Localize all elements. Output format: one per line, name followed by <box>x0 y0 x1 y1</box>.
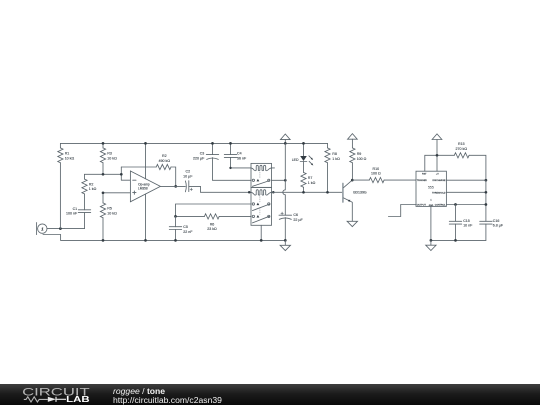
node LED rail junction <box>302 142 305 145</box>
wire K1 switch right to VCC column <box>272 179 286 181</box>
IC U2 555 timer <box>416 171 446 207</box>
svg-text:10 kΩ: 10 kΩ <box>107 211 117 215</box>
svg-text:C6: C6 <box>293 213 298 217</box>
svg-text:6.8 µF: 6.8 µF <box>493 224 504 228</box>
node RST VCC junction <box>436 154 439 157</box>
wire discharge <box>446 179 486 181</box>
ground GND1 <box>280 240 290 250</box>
resistor R8 <box>325 143 340 192</box>
node R5 bottom rail junction <box>102 239 105 242</box>
svg-text:DISCHARGE: DISCHARGE <box>432 179 446 182</box>
svg-text:R2: R2 <box>89 183 94 187</box>
svg-text:LED: LED <box>292 158 299 162</box>
node discharge junction <box>485 179 488 182</box>
svg-text:R6: R6 <box>210 222 215 226</box>
resistor R5 <box>100 193 117 241</box>
node R8 bottom junction <box>326 191 329 194</box>
footer title text <box>113 387 165 396</box>
svg-text:CONTROL: CONTROL <box>435 205 446 207</box>
capacitor C3 <box>193 143 251 180</box>
node R7 bottom junction <box>302 191 305 194</box>
relay K2 <box>251 187 272 240</box>
terminal T1 input 1 <box>37 223 47 235</box>
node inverting junction <box>120 173 123 176</box>
wire divider node to op-amp <box>85 173 122 175</box>
svg-text:22 nF: 22 nF <box>183 230 193 234</box>
node feedback output junction <box>174 185 177 188</box>
svg-text:R3: R3 <box>107 152 112 156</box>
wire 555 gnd pin <box>430 206 432 240</box>
node op-amp V- rail junction <box>144 239 147 242</box>
svg-text:10 nF: 10 nF <box>463 224 473 228</box>
svg-text:1: 1 <box>41 226 44 232</box>
svg-text:R2: R2 <box>162 154 167 158</box>
wire input node <box>47 228 85 230</box>
svg-text:OUTPUT: OUTPUT <box>417 205 427 207</box>
node collector junction <box>351 179 354 182</box>
svg-text:C2: C2 <box>185 169 190 173</box>
svg-text:10 kΩ: 10 kΩ <box>107 156 117 160</box>
node C6 rail junction <box>284 239 287 242</box>
svg-text:10 kΩ: 10 kΩ <box>65 156 75 160</box>
wire base net <box>272 191 343 193</box>
relay K1 <box>251 163 275 187</box>
svg-text:C5: C5 <box>183 225 188 229</box>
svg-text:R1: R1 <box>65 152 70 156</box>
svg-text:22 µF: 22 µF <box>293 218 303 222</box>
node K1 right junction <box>284 179 287 182</box>
svg-text:LM358: LM358 <box>138 187 148 191</box>
svg-text:100 Ω: 100 Ω <box>371 171 381 175</box>
svg-text:C1: C1 <box>73 207 78 211</box>
node C15 gnd junction <box>454 239 457 242</box>
svg-text:1 kΩ: 1 kΩ <box>89 187 97 191</box>
svg-text:1 kΩ: 1 kΩ <box>308 181 316 185</box>
wire output stub <box>388 205 416 217</box>
resistor R9 <box>350 148 367 180</box>
resistor R6 <box>176 214 252 231</box>
node C4 wire corner <box>229 167 231 169</box>
svg-text:TRIGGER: TRIGGER <box>417 180 427 182</box>
wire bottom ground rail <box>43 235 285 241</box>
wire C2 to relay K2 coil <box>189 186 251 192</box>
resistor R3 <box>100 143 117 174</box>
resistor R10 <box>352 167 416 183</box>
capacitor C16 <box>480 219 504 240</box>
resistor R15 <box>454 142 486 180</box>
LED D1 <box>292 143 314 172</box>
node divider junction <box>102 173 105 176</box>
svg-text:23 kΩ: 23 kΩ <box>207 227 217 231</box>
capacitor C4 <box>224 143 251 168</box>
wire control <box>446 204 486 206</box>
resistor R2 <box>82 174 97 210</box>
svg-text:56 nF: 56 nF <box>237 157 247 161</box>
wire non-inverting input <box>103 192 130 194</box>
wire top VCC rail <box>60 142 327 144</box>
footer url text <box>113 396 222 405</box>
wire VCC column with hop <box>283 143 286 215</box>
power VCC V1 <box>280 134 290 143</box>
node K2 coil right pin <box>272 191 275 194</box>
footer bar <box>0 384 540 405</box>
svg-text:R7: R7 <box>308 176 313 180</box>
power VCC V3 <box>432 134 442 171</box>
svg-text:220 µF: 220 µF <box>193 157 205 161</box>
svg-text:100 nF: 100 nF <box>66 212 78 216</box>
svg-text:270 kΩ: 270 kΩ <box>456 147 468 151</box>
node VCC rail junction <box>284 142 287 145</box>
svg-text:BD139G: BD139G <box>353 191 367 195</box>
svg-text:THRESHOLD: THRESHOLD <box>432 192 446 194</box>
svg-text:R9: R9 <box>357 152 362 156</box>
capacitor C1 <box>66 207 91 229</box>
svg-text:1 kΩ: 1 kΩ <box>332 157 340 161</box>
resistor R7 <box>301 172 316 192</box>
node op-amp V+ rail junction <box>144 142 147 145</box>
node control C16 junction <box>485 203 488 206</box>
svg-text:C16: C16 <box>493 219 500 223</box>
wire 555 ground rail <box>431 239 486 241</box>
svg-text:555: 555 <box>428 185 434 189</box>
node K2 coil left pin <box>248 191 251 194</box>
svg-text:R15: R15 <box>458 142 465 146</box>
svg-text:R8: R8 <box>332 152 337 156</box>
svg-text:C3: C3 <box>200 152 205 156</box>
resistor R2 feedback 490k <box>121 154 175 186</box>
wire RST to rail <box>425 155 455 171</box>
node plus input junction <box>102 191 105 194</box>
node C4 rail junction <box>229 142 232 145</box>
capacitor C6 <box>279 212 303 240</box>
transistor Q1 BD139G <box>343 180 367 221</box>
node 555 gnd junction <box>430 239 433 242</box>
capacitor C5 <box>169 216 193 240</box>
svg-text:RST: RST <box>422 173 427 175</box>
node threshold junction <box>485 191 488 194</box>
power VCC V2 <box>348 134 358 148</box>
wire B1 to C5 node <box>176 204 252 216</box>
node relay ground rail junction <box>260 239 263 242</box>
ground GND3 <box>426 240 436 250</box>
svg-text:R10: R10 <box>373 167 380 171</box>
svg-text:C15: C15 <box>463 219 470 223</box>
node input junction <box>59 227 62 230</box>
wire op-amp output <box>160 185 185 187</box>
ground GND2 <box>347 221 357 226</box>
node C3 rail junction <box>211 142 214 145</box>
svg-text:LAB: LAB <box>66 394 90 404</box>
wire inverting input jog <box>121 167 130 180</box>
node control C15 junction <box>454 203 457 206</box>
capacitor C15 <box>449 205 473 241</box>
resistor R1 <box>58 143 75 228</box>
svg-text:490 kΩ: 490 kΩ <box>159 159 171 163</box>
CircuitLab logo <box>0 384 110 405</box>
svg-text:C4: C4 <box>237 152 242 156</box>
svg-text:100 Ω: 100 Ω <box>357 157 367 161</box>
wire threshold <box>446 180 486 221</box>
capacitor C2 <box>183 169 193 191</box>
node R3 top rail junction <box>102 142 105 145</box>
svg-text:10 µF: 10 µF <box>183 175 193 179</box>
node R6 C5 junction <box>174 215 177 218</box>
op-amp U1 LM358 <box>130 143 160 240</box>
svg-text:R5: R5 <box>107 207 112 211</box>
node C5 rail junction <box>174 239 177 242</box>
